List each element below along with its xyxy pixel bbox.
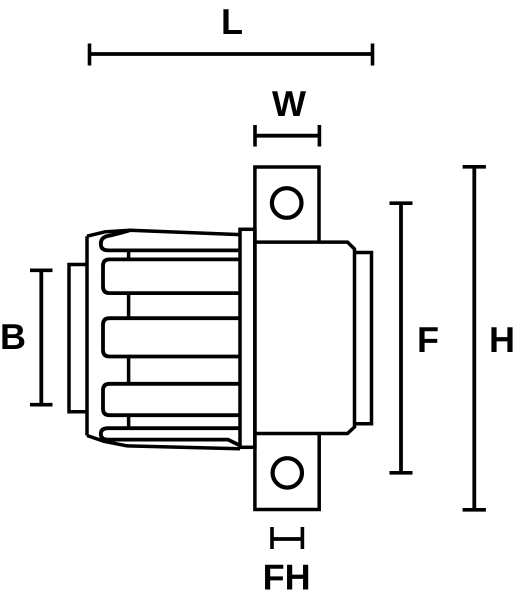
grip rib 2 — [103, 259, 240, 293]
grip left edge — [85, 236, 89, 435]
dimension B top tick — [30, 268, 53, 272]
dimension F bottom tick — [390, 471, 413, 475]
grip top outline — [87, 230, 240, 236]
top flange — [255, 167, 319, 243]
grip rib 1 (top) — [101, 231, 240, 251]
dimension H line — [472, 167, 476, 510]
dimension FH left tick — [270, 527, 274, 549]
dimension W right tick — [318, 125, 322, 147]
top flange hole — [272, 188, 302, 218]
svg-text:H: H — [489, 319, 515, 360]
dimension B line — [39, 270, 43, 404]
svg-text:F: F — [417, 319, 439, 360]
clamp bar — [240, 229, 255, 447]
grip valley line 1 — [127, 250, 131, 259]
main body — [255, 242, 355, 433]
svg-text:FH: FH — [263, 557, 311, 598]
dimension FH line — [272, 537, 302, 541]
right cap — [355, 253, 372, 424]
grip valley line 2 — [127, 293, 131, 318]
dimension H bottom tick — [463, 508, 486, 512]
bottom flange — [255, 434, 319, 510]
dimension H top tick — [463, 165, 486, 169]
dimension L left tick — [88, 44, 92, 66]
dimension FH right tick — [301, 527, 305, 549]
svg-text:L: L — [221, 1, 243, 42]
svg-text:W: W — [272, 83, 306, 124]
grip rib 5 (bottom) — [101, 428, 240, 445]
dimension W left tick — [253, 125, 257, 147]
bottom flange hole — [273, 458, 302, 487]
dimension F line — [399, 203, 403, 473]
grip bottom outline — [87, 436, 240, 449]
dimension B bottom tick — [30, 403, 53, 407]
dimension L line — [90, 52, 373, 56]
grip valley line 4 — [127, 415, 131, 428]
dimension W line — [255, 134, 319, 138]
svg-text:B: B — [0, 316, 26, 357]
grip rib 3 — [103, 318, 240, 356]
grip rib 4 — [103, 384, 240, 415]
left end cap — [69, 265, 88, 412]
grip valley line 3 — [127, 357, 131, 384]
dimension L right tick — [371, 44, 375, 66]
dimension F top tick — [390, 201, 413, 205]
